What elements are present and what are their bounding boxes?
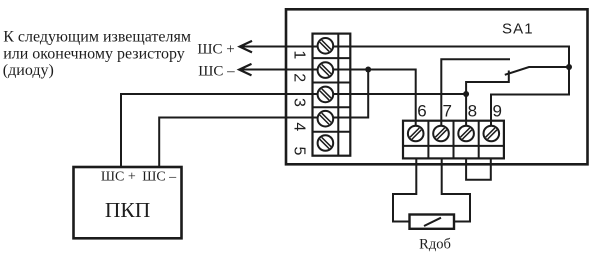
svg-text:3: 3 bbox=[290, 98, 307, 107]
svg-text:ШС +: ШС + bbox=[101, 169, 136, 184]
svg-text:1: 1 bbox=[290, 50, 307, 59]
svg-text:8: 8 bbox=[468, 102, 477, 121]
svg-text:7: 7 bbox=[442, 102, 451, 121]
svg-text:SA1: SA1 bbox=[502, 21, 534, 38]
wire ШС+ (terminal 1 to switch, net A) bbox=[240, 47, 570, 134]
screw terminal 3 bbox=[318, 87, 334, 103]
svg-text:4: 4 bbox=[290, 122, 307, 131]
wire terminal 7 to resistor (right leg) bbox=[442, 158, 470, 222]
arrow ШС- (to next detectors) bbox=[239, 64, 251, 76]
wire ПКП ШС+ to terminal 3 and terminal 8 bbox=[121, 94, 466, 167]
screw terminal 1 bbox=[318, 38, 334, 54]
node junction switch common bbox=[566, 64, 572, 70]
svg-text:2: 2 bbox=[290, 73, 307, 82]
screw terminal 7 bbox=[433, 126, 449, 142]
svg-text:(диоду): (диоду) bbox=[3, 62, 54, 79]
svg-text:ШС –: ШС – bbox=[142, 169, 177, 184]
wire terminal 4 to ПКП ШС- bbox=[159, 70, 368, 167]
wire ШС- (terminal 2 to terminal 6) bbox=[239, 70, 416, 134]
svg-text:ШС –: ШС – bbox=[198, 64, 235, 80]
screw terminal 8 bbox=[458, 126, 474, 142]
wire switch lower contact branch bbox=[466, 71, 509, 95]
svg-text:Rдоб: Rдоб bbox=[419, 236, 451, 252]
terminal block X2 (horizontal, terminals 6-9) bbox=[403, 121, 504, 159]
screw terminal 2 bbox=[318, 62, 334, 78]
terminal block X1 (vertical, terminals 1-5) bbox=[313, 34, 351, 156]
svg-text:К следующим извещателям: К следующим извещателям bbox=[3, 29, 191, 46]
resistor Rдоб bbox=[410, 215, 455, 229]
svg-text:6: 6 bbox=[417, 102, 426, 121]
screw terminal 5 bbox=[318, 135, 334, 151]
svg-text:5: 5 bbox=[290, 146, 307, 155]
screw terminal 4 bbox=[318, 111, 334, 127]
switch SA1 lever bbox=[505, 67, 569, 75]
screw terminal 6 bbox=[408, 126, 424, 142]
svg-text:ПКП: ПКП bbox=[105, 198, 150, 222]
svg-text:ШС +: ШС + bbox=[197, 42, 234, 58]
wire terminal 6 to resistor (left leg) bbox=[393, 158, 416, 222]
node junction terminal 8 / switch bbox=[463, 91, 469, 97]
wire terminal 7 to switch upper throw bbox=[441, 59, 510, 133]
screw terminal 9 bbox=[484, 126, 500, 142]
svg-text:или оконечному резистору: или оконечному резистору bbox=[3, 45, 185, 62]
arrow ШС+ (to next detectors) bbox=[240, 41, 252, 53]
enclosure box SA1 bbox=[286, 9, 588, 164]
svg-text:9: 9 bbox=[492, 102, 501, 121]
jumper terminals 8-9 bbox=[466, 158, 491, 180]
node junction terminals 2/4 bbox=[365, 67, 371, 73]
box ПКП bbox=[74, 167, 182, 238]
